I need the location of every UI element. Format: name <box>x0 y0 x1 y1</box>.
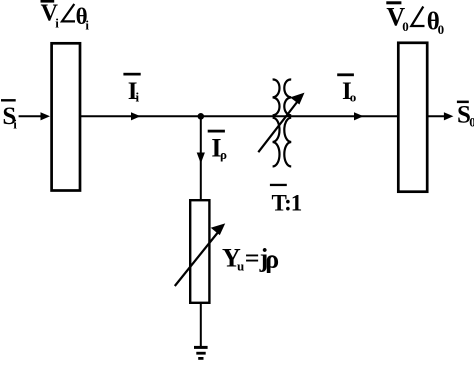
bus bar right (V_0) <box>398 43 427 192</box>
svg-text:0: 0 <box>438 22 445 37</box>
label S_0 (output power) <box>457 101 474 130</box>
variable admittance Y_u (shunt element body) <box>190 200 209 303</box>
variable arrow through Y_u <box>175 223 225 286</box>
label I_rho <box>208 130 227 163</box>
svg-text:ρ: ρ <box>265 245 279 274</box>
svg-text:T:1: T:1 <box>272 191 302 216</box>
wire: shunt branch down from node <box>200 116 202 200</box>
variable arrow through transformer <box>258 93 304 153</box>
svg-text:o: o <box>350 89 357 104</box>
arrow I_rho on shunt branch <box>197 153 205 164</box>
wire: S_i input arrow into left bus <box>19 112 50 120</box>
label T:1 (turns ratio) <box>270 184 302 216</box>
svg-text:u: u <box>237 258 244 273</box>
svg-text:i: i <box>136 89 140 104</box>
arrow I_i on main wire <box>131 112 141 120</box>
svg-text:i: i <box>85 18 89 33</box>
svg-text:i: i <box>13 117 17 132</box>
bus bar left (V_i) <box>52 43 80 190</box>
label I_o <box>337 73 356 105</box>
ground <box>194 347 208 358</box>
label V_0 angle theta_0 <box>386 1 444 37</box>
value label Y_u = j rho <box>222 244 279 274</box>
label S_i (input power) <box>1 99 17 132</box>
svg-text:0: 0 <box>469 114 474 129</box>
svg-text:i: i <box>55 15 59 30</box>
arrow I_o on main wire <box>354 112 364 120</box>
svg-text:ρ: ρ <box>220 147 227 162</box>
wire: S_0 output arrow from right bus <box>429 112 454 120</box>
wire: main horizontal line (left bus to right bus) <box>80 115 398 117</box>
transformer T: left winding <box>273 79 280 166</box>
label V_i angle theta_i <box>41 0 90 33</box>
svg-text:0: 0 <box>402 19 409 34</box>
wire: below Y_u to ground <box>200 303 202 347</box>
label I_i <box>123 73 140 105</box>
svg-text:=: = <box>245 244 260 273</box>
node junction (shunt tap) <box>198 113 205 120</box>
transformer T: right winding <box>284 79 291 166</box>
